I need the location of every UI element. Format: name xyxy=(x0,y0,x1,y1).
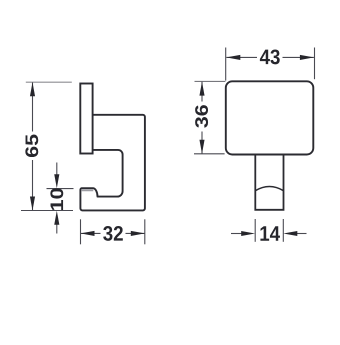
dimension 14: left arrow (outside, points right) xyxy=(231,233,243,235)
dimension 43: label xyxy=(260,49,280,64)
dimension 65: label xyxy=(25,135,38,158)
dimension 10: label xyxy=(50,188,63,210)
dimension 36: top arrow xyxy=(199,82,204,96)
hook front view: head xyxy=(226,81,313,154)
hook side view: wall plate xyxy=(80,84,92,154)
dimension 14: left extension line xyxy=(254,219,256,242)
dimension 32: right arrow xyxy=(131,231,145,236)
hook side view: body outline xyxy=(80,115,144,211)
dimension 32: right extension line xyxy=(144,219,146,244)
dimension 14: right arrow (outside, points left) xyxy=(296,233,307,235)
dimension 32: label xyxy=(103,226,123,241)
dimension 65: top extension line (gray) xyxy=(26,81,72,83)
hook front view: stem xyxy=(255,155,283,210)
dimension 43: dimension line xyxy=(226,56,257,58)
dimension 14: right extension line xyxy=(282,219,284,242)
dimension 32: left arrow xyxy=(81,231,95,236)
dimension 43: left extension line xyxy=(225,48,227,81)
dimension 10: top extension line xyxy=(47,188,74,190)
dimension 65: dimension line xyxy=(32,82,34,131)
dimension 36: bottom extension line xyxy=(194,153,225,155)
dimension 43: left arrow xyxy=(226,55,240,60)
dimension 10: top arrow (points down) xyxy=(56,163,58,177)
dimension 65: bottom arrow xyxy=(30,197,35,211)
dimension 65: top arrow xyxy=(30,82,35,96)
dimension 43: right extension line xyxy=(314,48,316,80)
dimension 32: dimension line xyxy=(81,232,101,234)
dimension 32: left extension line xyxy=(80,219,82,244)
dimension 10: gray witness line inside lip xyxy=(81,189,93,191)
dimension 36: dimension line xyxy=(201,82,203,102)
dimension 36: label xyxy=(195,105,208,128)
hook front view: stem arc xyxy=(255,187,283,191)
dimension 14: label xyxy=(260,226,280,240)
dimension 36: bottom arrow xyxy=(199,140,204,154)
dimension 65/10: bottom extension line xyxy=(21,210,73,212)
dimension 43: right arrow xyxy=(300,55,314,60)
dimension 36: top extension line xyxy=(195,80,226,82)
dimension 10: bottom arrow (points up) xyxy=(56,224,58,234)
